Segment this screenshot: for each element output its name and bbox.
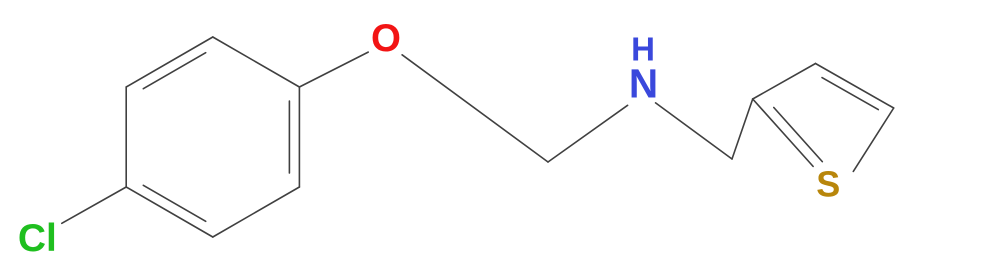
- svg-text:S: S: [816, 163, 840, 204]
- svg-text:Cl: Cl: [18, 217, 57, 260]
- svg-text:O: O: [371, 17, 401, 60]
- svg-text:N: N: [629, 61, 658, 107]
